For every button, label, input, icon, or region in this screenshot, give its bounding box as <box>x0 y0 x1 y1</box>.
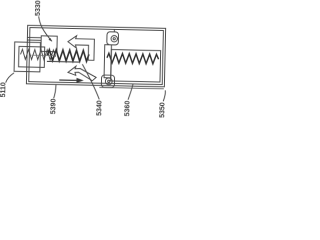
bottom outline arrow (points left, tail bends down-right) <box>68 66 97 81</box>
filled flow arrow <box>48 38 85 83</box>
bold heater zigzag <box>47 50 89 62</box>
svg-text:5350: 5350 <box>159 102 166 118</box>
hanger line <box>113 29 115 32</box>
heater support rail mid <box>32 54 56 57</box>
leader 5340 <box>82 64 100 99</box>
left block outer rect <box>14 42 40 72</box>
right heater zigzag <box>107 53 159 64</box>
left block inner rect <box>19 46 45 67</box>
bottom tab screw hole <box>105 78 112 85</box>
svg-text:5110: 5110 <box>0 82 7 97</box>
bracket bottom tab <box>101 75 114 88</box>
thin heater zigzag <box>20 49 55 60</box>
leader 5110 <box>6 73 14 83</box>
leader 5390 <box>54 85 56 99</box>
leader 5360 <box>128 84 133 100</box>
right heater box <box>111 50 161 82</box>
outer housing inner wall <box>29 28 164 85</box>
heater support rail lower <box>47 60 80 63</box>
leader arrowhead 5330 <box>49 38 52 41</box>
outer housing outer wall <box>26 25 165 86</box>
top outline arrow (points left, tail bends down) <box>68 36 95 61</box>
top tab screw hole <box>111 35 118 42</box>
leader 5330 <box>38 16 52 41</box>
duct stub lower line <box>27 39 41 41</box>
svg-text:5330: 5330 <box>35 0 42 16</box>
svg-text:5340: 5340 <box>96 100 103 116</box>
base shadow line <box>99 87 163 88</box>
svg-text:5390: 5390 <box>50 98 57 114</box>
duct stub upper line <box>27 36 41 38</box>
top tab screw center <box>113 38 115 40</box>
bottom tab screw center <box>108 80 110 82</box>
small box 5330 <box>41 36 57 52</box>
leader 5350 <box>163 90 165 101</box>
bracket top tab <box>107 32 119 45</box>
bracket plate <box>104 45 111 78</box>
svg-text:5360: 5360 <box>124 101 131 117</box>
